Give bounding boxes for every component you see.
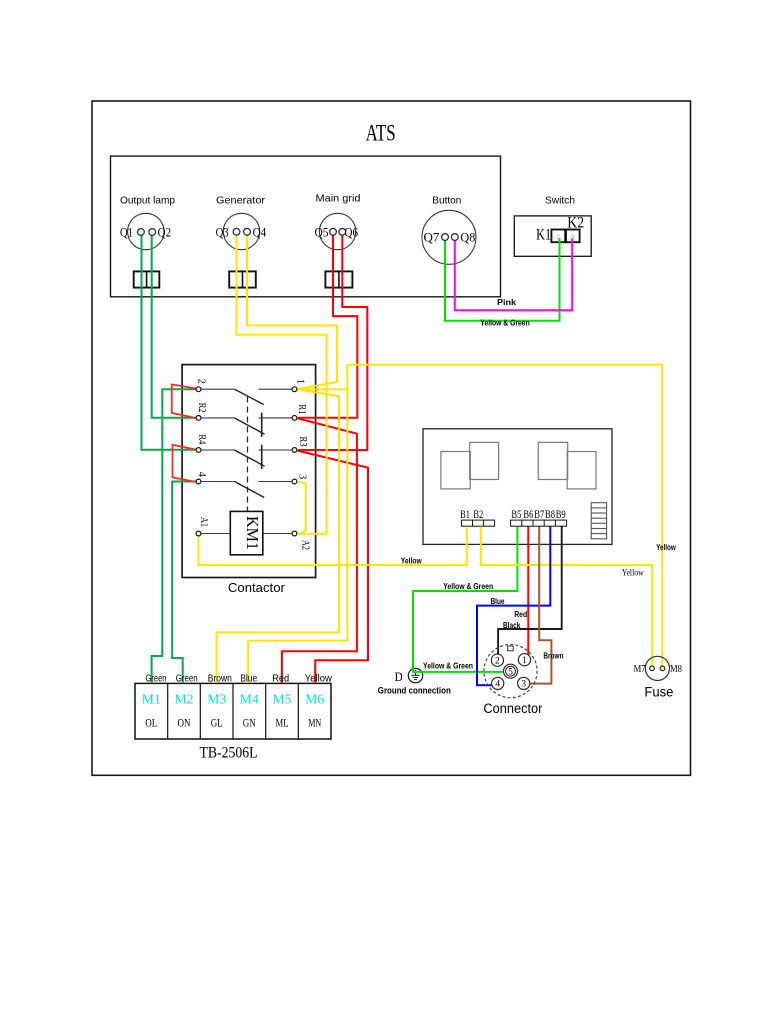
svg-text:Green: Green — [176, 673, 198, 684]
svg-text:Q2: Q2 — [158, 225, 172, 240]
svg-text:Pink: Pink — [497, 297, 516, 307]
svg-text:Connector: Connector — [483, 701, 542, 716]
svg-text:5: 5 — [571, 234, 574, 240]
svg-text:Button: Button — [432, 195, 461, 207]
svg-text:R3: R3 — [297, 437, 308, 447]
svg-text:Q7: Q7 — [424, 230, 440, 245]
svg-text:K1: K1 — [536, 226, 551, 243]
svg-text:M6: M6 — [305, 693, 324, 708]
svg-text:2: 2 — [495, 657, 500, 667]
svg-text:Yellow: Yellow — [401, 555, 422, 565]
svg-text:B2: B2 — [473, 509, 483, 521]
svg-text:3: 3 — [521, 680, 526, 690]
svg-text:M1: M1 — [142, 693, 161, 708]
svg-text:B6: B6 — [523, 509, 533, 521]
svg-text:Q1: Q1 — [120, 225, 133, 240]
svg-text:Brown: Brown — [543, 651, 563, 661]
svg-text:Yellow: Yellow — [305, 673, 333, 684]
svg-text:D: D — [395, 670, 403, 684]
svg-text:MN: MN — [308, 718, 321, 730]
svg-text:ON: ON — [178, 718, 192, 730]
svg-text:M5: M5 — [273, 693, 292, 708]
svg-text:R1: R1 — [296, 404, 307, 414]
svg-text:Ground connection: Ground connection — [378, 686, 451, 696]
svg-text:Yellow: Yellow — [622, 568, 644, 578]
svg-text:Yellow & Green: Yellow & Green — [443, 581, 493, 591]
svg-text:M3: M3 — [207, 693, 226, 708]
svg-text:KM1: KM1 — [243, 516, 262, 550]
svg-text:Q5: Q5 — [315, 224, 329, 239]
svg-text:GN: GN — [243, 718, 257, 730]
svg-text:GL: GL — [211, 718, 223, 730]
svg-text:B1: B1 — [460, 509, 470, 521]
svg-text:2: 2 — [557, 234, 560, 240]
svg-text:M8: M8 — [670, 663, 682, 675]
svg-text:Red: Red — [272, 673, 289, 684]
svg-text:4: 4 — [495, 680, 500, 690]
svg-text:K2: K2 — [567, 215, 584, 232]
svg-text:Switch: Switch — [545, 195, 575, 207]
svg-text:Output lamp: Output lamp — [120, 195, 175, 207]
svg-text:Q6: Q6 — [345, 224, 359, 239]
svg-text:Main grid: Main grid — [316, 192, 361, 204]
svg-text:4: 4 — [196, 472, 207, 478]
svg-text:M7: M7 — [634, 663, 646, 675]
svg-text:M2: M2 — [175, 693, 194, 708]
svg-text:B7: B7 — [534, 509, 544, 521]
svg-text:ATS: ATS — [366, 121, 396, 146]
svg-text:Yellow & Green: Yellow & Green — [423, 661, 473, 671]
svg-text:Fuse: Fuse — [644, 684, 673, 700]
svg-text:Yellow: Yellow — [656, 542, 676, 552]
svg-text:1: 1 — [522, 656, 527, 666]
svg-text:B9: B9 — [556, 509, 566, 521]
svg-text:Q8: Q8 — [460, 230, 475, 245]
svg-text:Blue: Blue — [240, 673, 257, 684]
svg-text:M4: M4 — [240, 693, 259, 708]
svg-text:Generator: Generator — [216, 195, 266, 207]
svg-text:1: 1 — [295, 379, 306, 384]
svg-text:Black: Black — [503, 620, 521, 630]
svg-text:Q3: Q3 — [216, 224, 229, 239]
svg-text:ML: ML — [276, 718, 289, 730]
svg-text:TB-2506L: TB-2506L — [200, 745, 258, 762]
svg-text:2: 2 — [195, 379, 206, 384]
svg-text:B8: B8 — [545, 509, 555, 521]
svg-text:5: 5 — [508, 668, 513, 678]
svg-text:Green: Green — [146, 673, 167, 684]
svg-text:B5: B5 — [511, 509, 521, 521]
svg-text:Q4: Q4 — [253, 224, 267, 239]
svg-text:Brown: Brown — [208, 673, 232, 684]
svg-text:3: 3 — [296, 474, 307, 479]
svg-text:R4: R4 — [196, 434, 207, 445]
svg-text:Red: Red — [514, 609, 527, 619]
svg-text:R2: R2 — [196, 403, 207, 413]
svg-text:Blue: Blue — [491, 596, 505, 606]
svg-text:A2: A2 — [300, 540, 311, 550]
svg-text:Yellow & Green: Yellow & Green — [480, 318, 530, 328]
svg-text:A1: A1 — [198, 517, 209, 527]
svg-text:OL: OL — [145, 718, 157, 730]
svg-text:Contactor: Contactor — [228, 580, 286, 595]
